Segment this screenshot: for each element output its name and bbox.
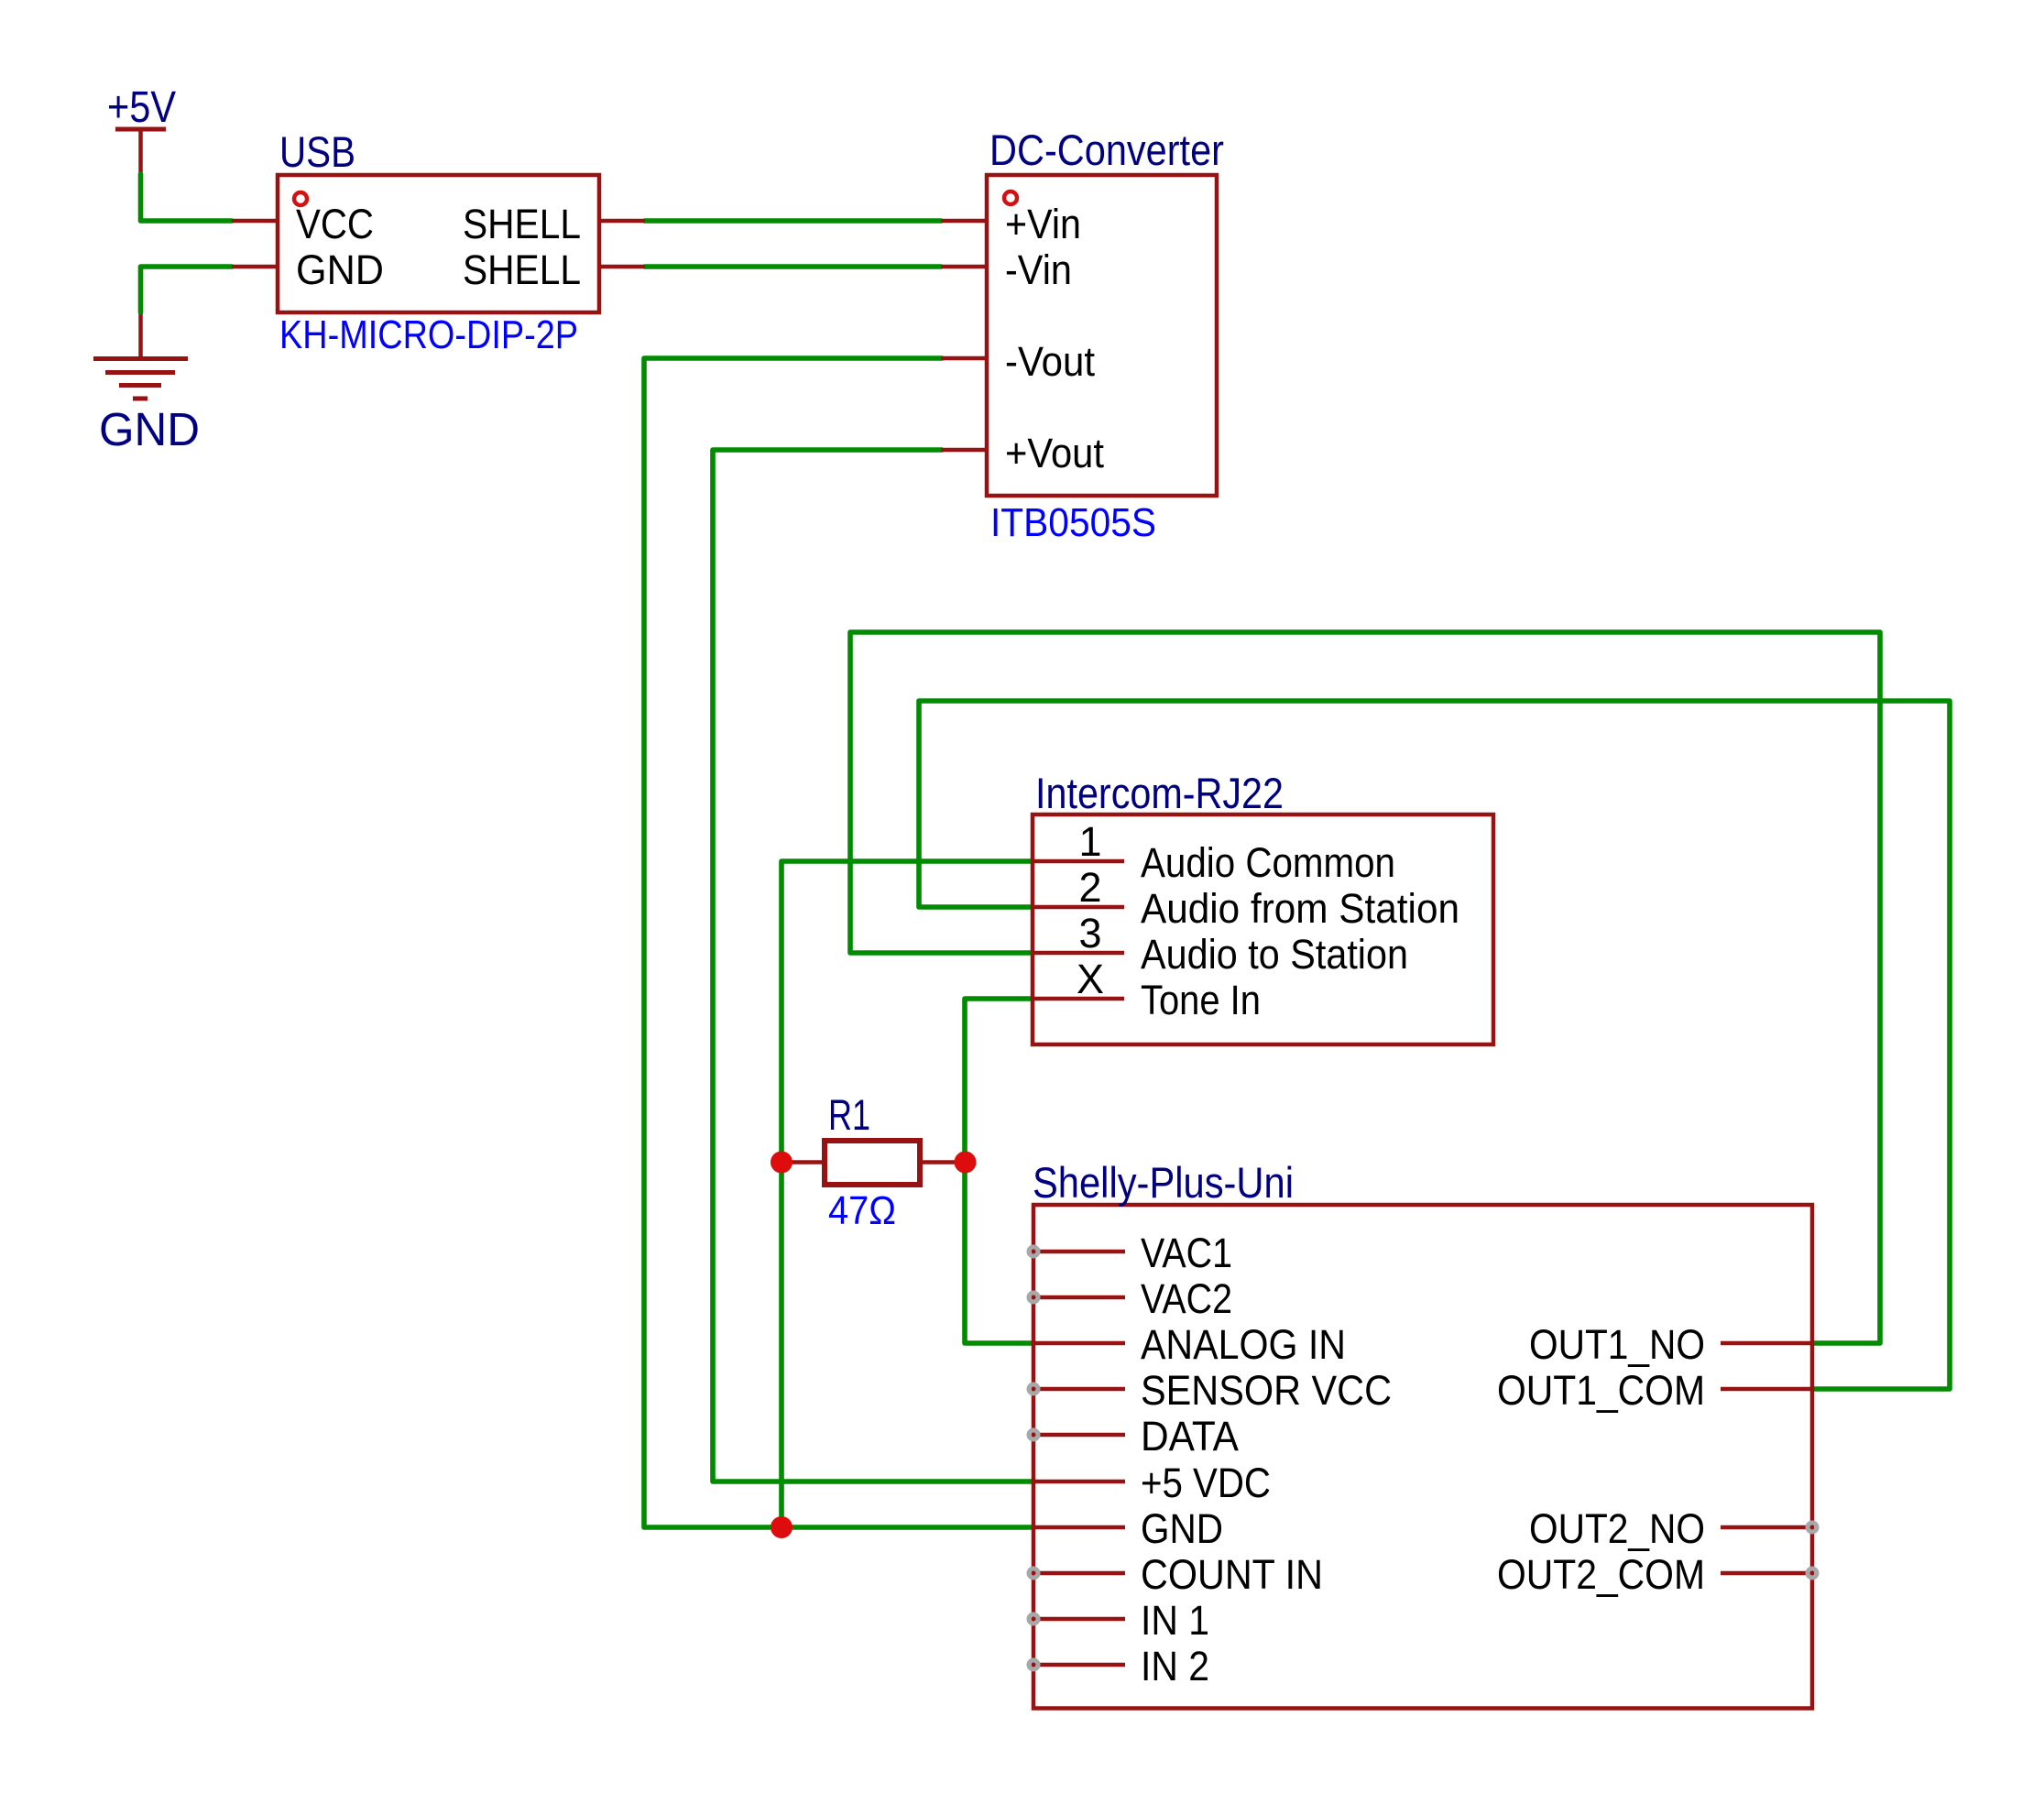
wire Audio from Station to OUT1_COM <box>919 701 1950 1389</box>
svg-text:+Vin: +Vin <box>1005 201 1081 247</box>
svg-text:+Vout: +Vout <box>1005 430 1104 476</box>
pin OUT2_NO <box>1529 1505 1817 1552</box>
svg-text:Audio to Station: Audio to Station <box>1141 931 1408 978</box>
pin VAC2 <box>1029 1275 1232 1322</box>
connector Intercom-RJ22 <box>1033 769 1493 1044</box>
svg-text:OUT2_COM: OUT2_COM <box>1497 1551 1705 1598</box>
svg-text:USB: USB <box>279 127 355 176</box>
pin SHELL (bottom) <box>463 246 645 293</box>
pin +5 VDC <box>1033 1460 1271 1506</box>
svg-text:IN 2: IN 2 <box>1141 1643 1209 1689</box>
svg-text:SENSOR VCC: SENSOR VCC <box>1141 1367 1392 1414</box>
wire +5VDC net: DC +Vout to Shelly +5 VDC <box>713 450 1033 1481</box>
DC-Converter (ITB0505S) <box>987 126 1224 545</box>
pin OUT2_COM <box>1497 1551 1817 1598</box>
svg-text:DC-Converter: DC-Converter <box>989 126 1224 174</box>
svg-text:DATA: DATA <box>1141 1413 1239 1460</box>
svg-text:1: 1 <box>1078 818 1101 865</box>
junction R1 left <box>771 1152 792 1174</box>
pin X Tone In <box>1033 956 1261 1023</box>
pin ANALOG IN <box>1033 1321 1346 1368</box>
svg-text:GND: GND <box>1141 1505 1223 1552</box>
svg-text:SHELL: SHELL <box>463 201 581 247</box>
module Shelly-Plus-Uni <box>1033 1158 1812 1709</box>
resistor R1 <box>782 1090 965 1233</box>
power symbol +5V <box>107 83 176 174</box>
svg-text:VCC: VCC <box>296 201 374 247</box>
svg-text:KH-MICRO-DIP-2P: KH-MICRO-DIP-2P <box>279 312 578 357</box>
pin +Vin <box>941 201 1081 247</box>
wire Tone In to ANALOG IN through R1 node <box>965 999 1033 1343</box>
wire GND net: DC -Vout to Shelly GND <box>644 358 1033 1527</box>
pin 2 Audio from Station <box>1033 864 1459 932</box>
svg-text:GND: GND <box>99 403 200 455</box>
pin OUT1_NO <box>1529 1321 1812 1368</box>
svg-text:GND: GND <box>296 246 384 293</box>
connector USB (KH-MICRO-DIP-2P) <box>278 127 599 357</box>
svg-text:-Vin: -Vin <box>1005 246 1072 293</box>
wire +5V to USB VCC <box>141 174 233 221</box>
pin -Vout <box>941 338 1095 385</box>
pin GND (Shelly) <box>1033 1505 1223 1552</box>
pin OUT1_COM <box>1497 1367 1812 1414</box>
pin SHELL (top) <box>463 201 645 247</box>
svg-text:R1: R1 <box>828 1090 870 1139</box>
svg-text:3: 3 <box>1078 910 1101 957</box>
svg-text:Audio from Station: Audio from Station <box>1141 885 1459 932</box>
pin VCC <box>232 201 374 247</box>
pin -Vin <box>941 246 1072 293</box>
svg-text:Shelly-Plus-Uni: Shelly-Plus-Uni <box>1033 1158 1294 1207</box>
svg-text:2: 2 <box>1078 864 1101 911</box>
svg-text:ANALOG IN: ANALOG IN <box>1141 1321 1346 1368</box>
pin 3 Audio to Station <box>1033 910 1408 978</box>
svg-text:Audio Common: Audio Common <box>1141 839 1395 886</box>
svg-text:OUT1_NO: OUT1_NO <box>1529 1321 1705 1368</box>
pin IN 2 <box>1029 1643 1209 1689</box>
pin DATA <box>1029 1413 1239 1460</box>
pin SENSOR VCC <box>1029 1367 1392 1414</box>
svg-text:Tone In: Tone In <box>1141 977 1261 1023</box>
svg-text:-Vout: -Vout <box>1005 338 1095 385</box>
wire Audio Common branch to GND net <box>782 861 1033 1527</box>
svg-text:SHELL: SHELL <box>463 246 581 293</box>
svg-text:OUT1_COM: OUT1_COM <box>1497 1367 1705 1414</box>
wire Audio to Station to OUT1_NO <box>850 632 1880 1343</box>
wire USB GND to ground <box>141 267 233 312</box>
svg-text:47Ω: 47Ω <box>828 1188 896 1233</box>
ground symbol GND <box>93 312 200 455</box>
svg-text:ITB0505S: ITB0505S <box>990 500 1156 545</box>
svg-text:OUT2_NO: OUT2_NO <box>1529 1505 1705 1552</box>
svg-text:IN 1: IN 1 <box>1141 1597 1209 1644</box>
pin GND <box>232 246 384 293</box>
svg-text:Intercom-RJ22: Intercom-RJ22 <box>1035 769 1284 817</box>
wire USB SHELL to DC -Vin <box>645 264 941 269</box>
svg-text:X: X <box>1077 956 1104 1002</box>
pin +Vout <box>941 430 1104 476</box>
svg-text:+5V: +5V <box>107 83 176 132</box>
junction GND net <box>771 1516 792 1538</box>
svg-text:VAC2: VAC2 <box>1141 1275 1232 1322</box>
pin COUNT IN <box>1029 1551 1323 1598</box>
junction R1 right <box>955 1152 977 1174</box>
wire USB SHELL to DC +Vin <box>645 218 941 224</box>
svg-text:+5 VDC: +5 VDC <box>1141 1460 1271 1506</box>
svg-text:VAC1: VAC1 <box>1141 1230 1232 1276</box>
pin VAC1 <box>1029 1230 1232 1276</box>
pin 1 Audio Common <box>1033 818 1395 886</box>
pin IN 1 <box>1029 1597 1209 1644</box>
svg-text:COUNT IN: COUNT IN <box>1141 1551 1323 1598</box>
